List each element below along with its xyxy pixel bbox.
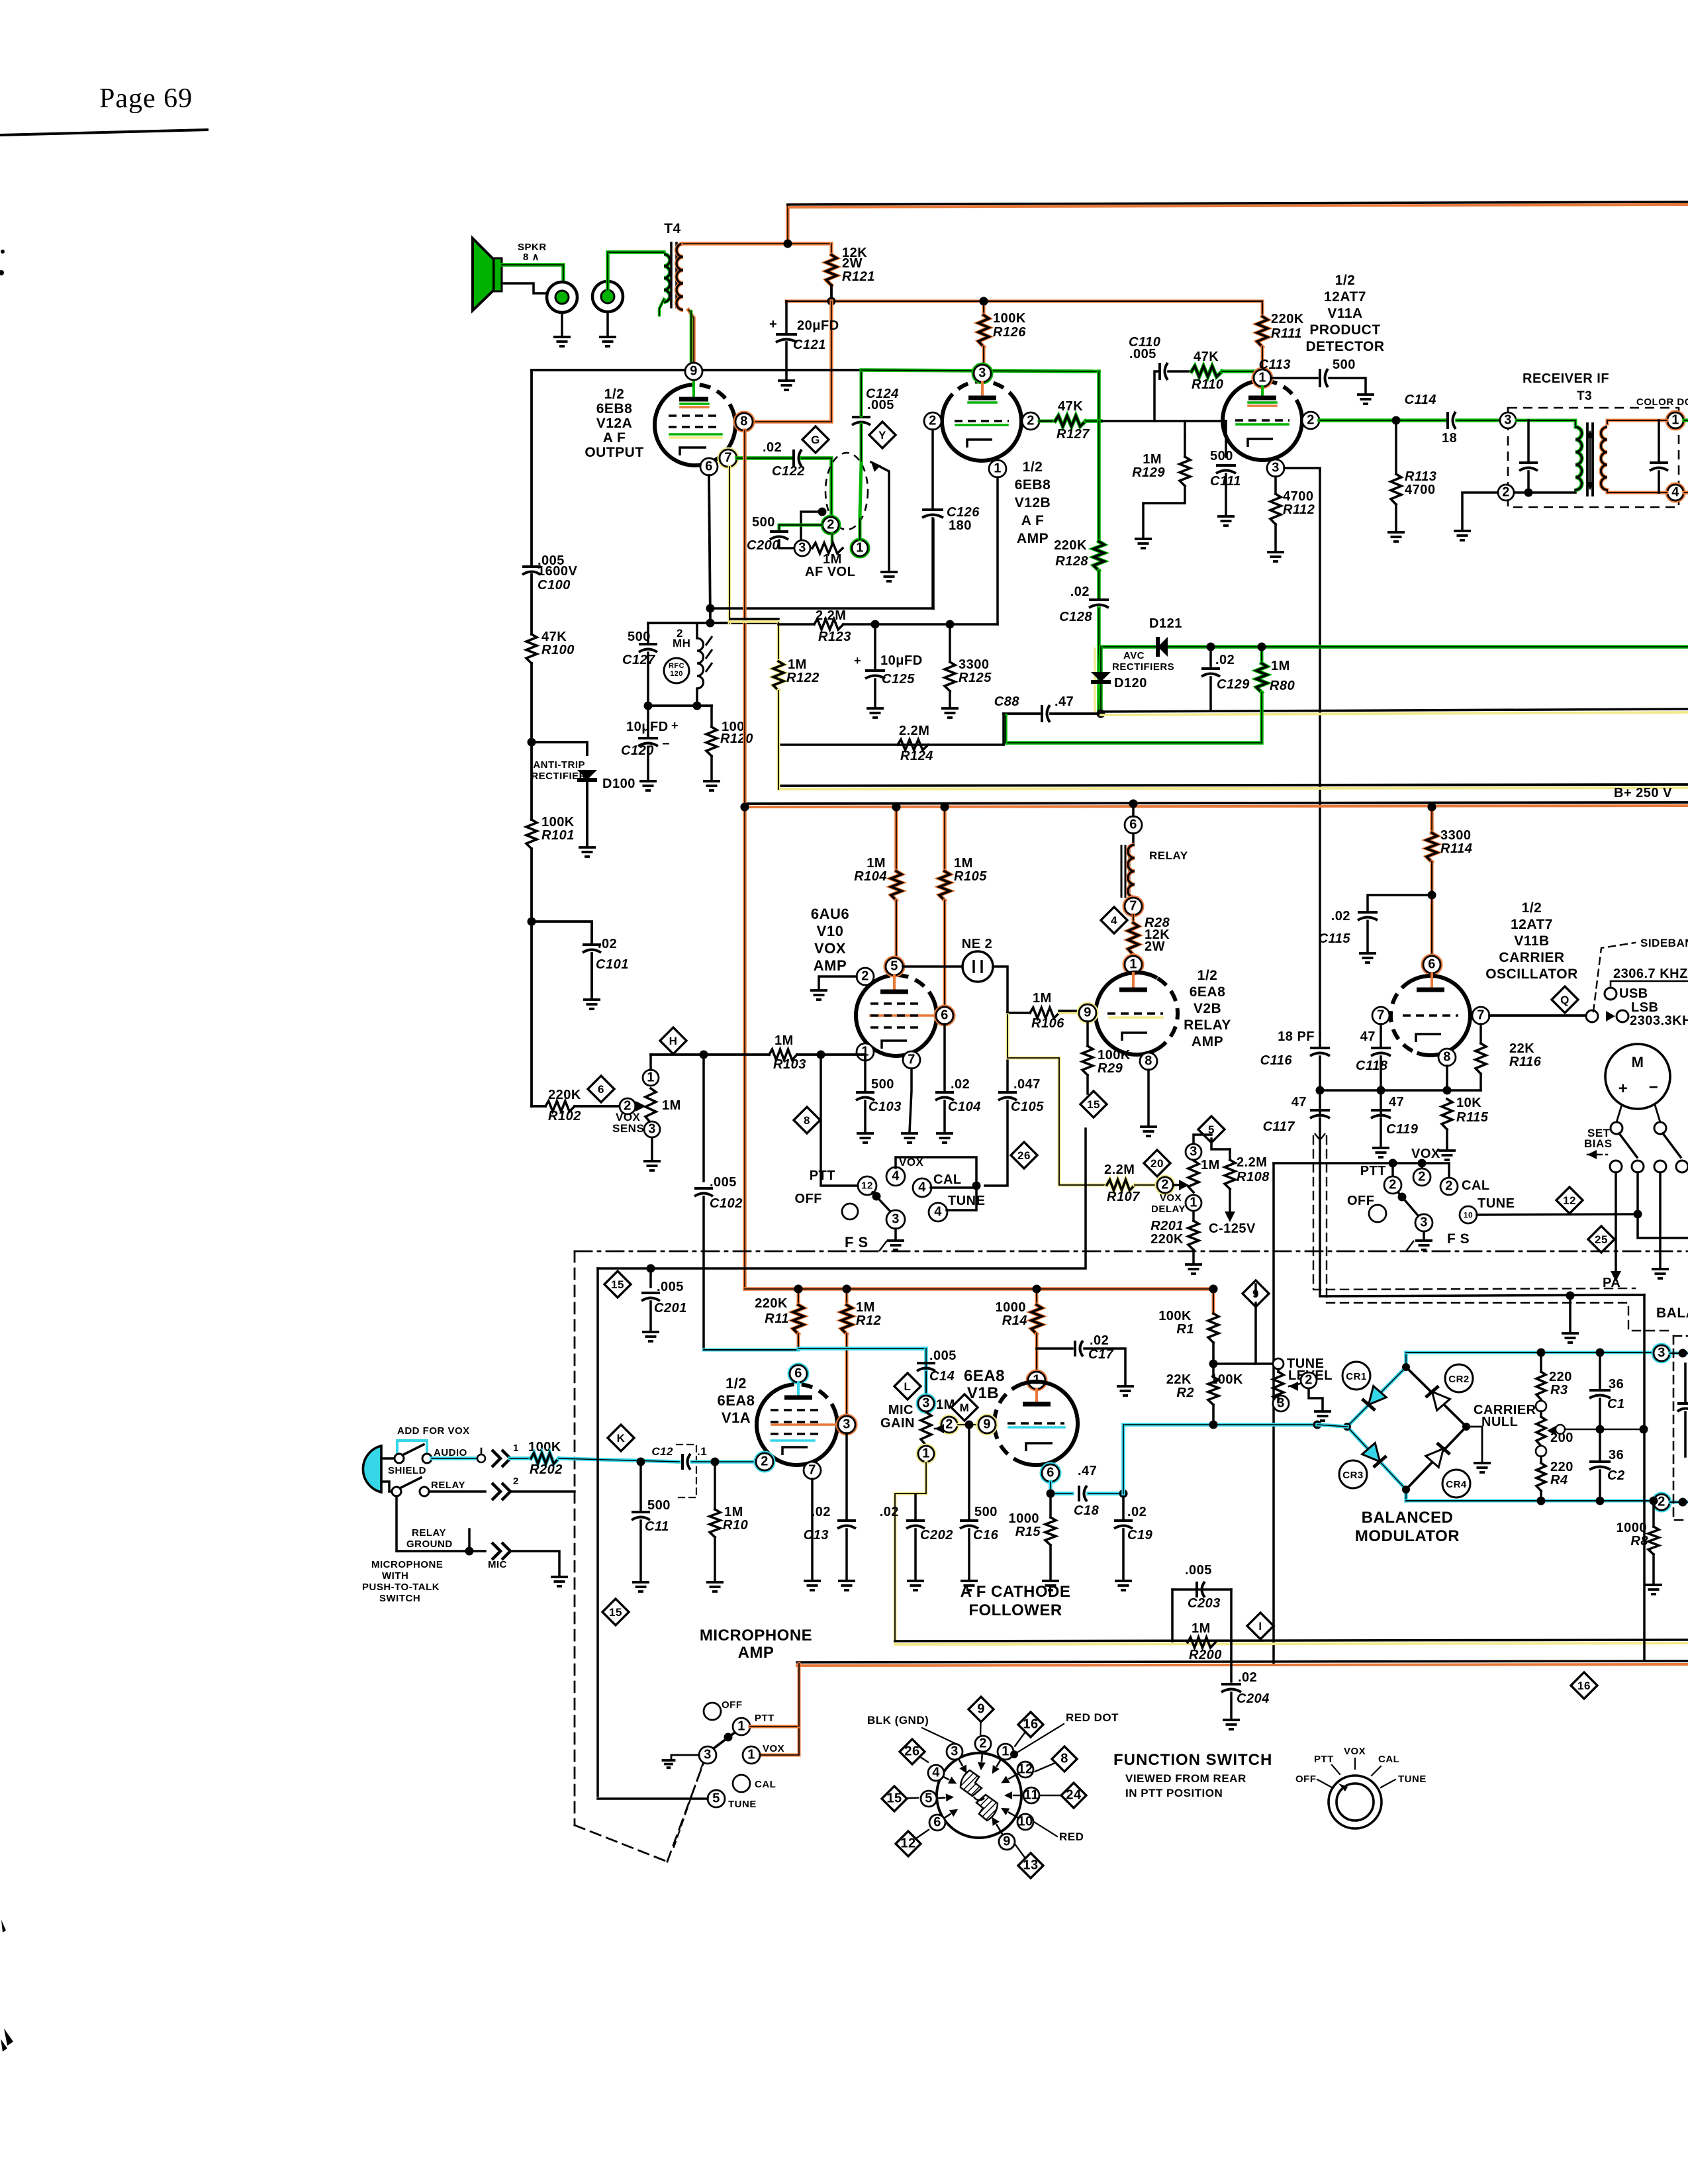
svg-text:22K: 22K (1166, 1372, 1192, 1387)
svg-text:PRODUCT: PRODUCT (1309, 322, 1380, 338)
svg-text:NULL: NULL (1481, 1415, 1518, 1429)
ground below R112 (1274, 524, 1277, 551)
svg-text:.02: .02 (1238, 1670, 1257, 1685)
T3 core (1586, 424, 1589, 495)
svg-text:2.2M: 2.2M (1104, 1163, 1135, 1177)
svg-text:1000: 1000 (1617, 1521, 1648, 1535)
mic audio switch contacts (381, 1457, 395, 1460)
junction row C116/C118 (1319, 1091, 1321, 1092)
svg-text:Y: Y (878, 429, 886, 442)
svg-text:2.2M: 2.2M (899, 724, 929, 738)
svg-text:C113: C113 (1259, 357, 1291, 372)
capacitor C88 .47 (1004, 712, 1039, 715)
svg-text:R128: R128 (1055, 554, 1088, 569)
wire V11A pin3 branch to long vertical (1284, 468, 1320, 471)
capacitor C105 .047 (1006, 1013, 1009, 1091)
svg-text:COLOR DOT: COLOR DOT (1636, 397, 1688, 408)
svg-text:100K: 100K (1098, 1048, 1131, 1063)
resistor R114 3300 (1428, 803, 1436, 812)
svg-text:V12A: V12A (596, 416, 633, 431)
svg-text:R112: R112 (1283, 502, 1315, 517)
resistor R116 22K (1479, 1024, 1482, 1043)
svg-text:5: 5 (890, 959, 898, 973)
svg-text:2: 2 (1445, 1178, 1453, 1193)
svg-text:2.2M: 2.2M (1237, 1155, 1267, 1170)
svg-text:C19: C19 (1127, 1528, 1153, 1543)
FS wiring to junction (896, 1157, 976, 1210)
svg-text:V11A: V11A (1327, 306, 1362, 321)
svg-text:R123: R123 (818, 630, 851, 644)
svg-text:RELAY: RELAY (412, 1527, 446, 1539)
V10 pin 6 (grid) (936, 1007, 953, 1024)
tube V10 6AU6 VOX AMP (856, 976, 937, 1056)
svg-text:8: 8 (804, 1114, 810, 1127)
svg-text:3300: 3300 (1440, 828, 1472, 843)
svg-text:C121: C121 (793, 338, 826, 352)
wire wiper row to V1B pin 9 (958, 1423, 978, 1427)
svg-text:C204: C204 (1237, 1691, 1270, 1706)
node 6 diamond (588, 1076, 614, 1102)
V10 pin 7 (903, 1051, 920, 1068)
V1A pin 7 (804, 1462, 821, 1479)
svg-text:8: 8 (1145, 1053, 1152, 1068)
svg-text:C114: C114 (1405, 393, 1436, 407)
wire T4 secondary bottom stub (659, 299, 664, 315)
USB contact + label (1605, 988, 1617, 1000)
svg-text:.005: .005 (867, 398, 894, 412)
pot wiper line to C1/C2 junction (1565, 1429, 1600, 1431)
svg-text:1M: 1M (724, 1505, 743, 1519)
V12B grid (955, 420, 1009, 422)
svg-text:VIEWED FROM REAR: VIEWED FROM REAR (1125, 1772, 1246, 1785)
V12A pin 8 (plate) (735, 413, 753, 430)
svg-text:C127: C127 (622, 653, 655, 667)
svg-text:22K: 22K (1509, 1041, 1534, 1056)
V2B pin 7 (1125, 898, 1142, 915)
meter M (1605, 1044, 1670, 1109)
svg-text:ANTI-TRIP: ANTI-TRIP (533, 759, 585, 771)
T3 pin 2 (1498, 485, 1514, 500)
svg-text:CR3: CR3 (1342, 1470, 1364, 1481)
svg-text:15: 15 (611, 1278, 624, 1291)
svg-text:.1: .1 (697, 1445, 707, 1458)
svg-text:6: 6 (598, 1083, 604, 1096)
svg-text:1/2: 1/2 (1522, 900, 1542, 916)
V2B pin 1 (plate) (1125, 956, 1142, 973)
resistor R107 2.2M (yellow) (1107, 1180, 1135, 1190)
svg-text:.02: .02 (1331, 909, 1350, 924)
svg-text:CAL: CAL (1462, 1178, 1490, 1193)
svg-text:R126: R126 (993, 325, 1026, 340)
svg-text:47: 47 (1360, 1029, 1376, 1044)
svg-text:2: 2 (1418, 1169, 1426, 1184)
ground below R129 (1143, 486, 1185, 538)
resistor R124 2.2M (898, 739, 928, 750)
svg-text:3: 3 (1504, 412, 1512, 427)
svg-text:2: 2 (861, 969, 869, 983)
svg-text:C125: C125 (882, 672, 915, 687)
yellow bottom rail (895, 1640, 1688, 1641)
T3 tuning capacitor left (1527, 420, 1530, 461)
svg-text:12: 12 (1017, 1762, 1033, 1776)
V10 pin 5 (plate) (886, 958, 903, 975)
svg-text:ADD FOR VOX: ADD FOR VOX (397, 1425, 470, 1437)
svg-text:BLK (GND): BLK (GND) (867, 1714, 929, 1727)
svg-text:R202: R202 (530, 1462, 563, 1477)
dashed arm from contact 3 (674, 1763, 703, 1847)
svg-text:6EB8: 6EB8 (1015, 477, 1051, 493)
svg-text:500: 500 (974, 1505, 998, 1519)
TUNE contact 10 (1460, 1206, 1477, 1223)
svg-text:1: 1 (1258, 370, 1266, 385)
wire VOX delay pot top to R108 (1194, 1135, 1211, 1143)
green return rectangle bottom (1006, 692, 1262, 743)
long vertical from PTT row down to bottom rail (1272, 1163, 1275, 1665)
svg-text:CR4: CR4 (1446, 1479, 1467, 1490)
svg-text:Page 69: Page 69 (99, 83, 193, 114)
V1A pin 6 (plate) (790, 1365, 807, 1382)
dashed leader to SIDEBAND label (1593, 943, 1635, 1012)
svg-text:RED DOT: RED DOT (1066, 1711, 1119, 1724)
svg-text:R80: R80 (1270, 679, 1295, 693)
svg-text:220K: 220K (755, 1296, 788, 1311)
T3 tuning capacitor right (1658, 420, 1660, 461)
svg-text:R114: R114 (1440, 841, 1472, 856)
svg-text:PTT: PTT (810, 1168, 835, 1183)
svg-text:2: 2 (1389, 1177, 1397, 1192)
capacitor C13 .02 (845, 1433, 848, 1519)
svg-text:1: 1 (1002, 1744, 1009, 1758)
svg-text:C104: C104 (948, 1100, 981, 1114)
svg-text:R129: R129 (1132, 465, 1165, 480)
wire junction up to top rail (786, 206, 790, 244)
yellow VOX delay feed (1008, 1015, 1107, 1185)
microphone symbol (363, 1446, 381, 1492)
dashed shield around C12 (677, 1445, 696, 1497)
node 9 diamond (1243, 1280, 1269, 1307)
cyan stubs to filter box (1670, 1352, 1688, 1355)
wire V12A pin 7 to C122 (green) (737, 456, 792, 460)
svg-text:OFF: OFF (795, 1192, 823, 1206)
svg-text:VOX: VOX (814, 940, 846, 957)
long vertical carrier feed down through modulator (1643, 1295, 1646, 1661)
svg-text:D100: D100 (602, 777, 635, 791)
wire orange drop from screen node to V12A plate pin 8 (753, 301, 831, 422)
V11B pin 7 right (1472, 1007, 1489, 1024)
V12A pin 6 (700, 458, 718, 475)
FS solid box outline (598, 1129, 1086, 1268)
svg-text:RECTIFIERS: RECTIFIERS (1112, 661, 1174, 673)
resistor R80 1M (1260, 647, 1264, 663)
V11A pin 3 (1267, 459, 1284, 477)
svg-text:220K: 220K (548, 1088, 581, 1102)
svg-text:6: 6 (1129, 817, 1137, 831)
tube V12A 1/2 6EB8 AF OUTPUT (655, 385, 735, 465)
svg-text:180: 180 (949, 518, 972, 533)
svg-text:C105: C105 (1011, 1100, 1044, 1114)
svg-text:OSCILLATOR: OSCILLATOR (1485, 967, 1578, 982)
svg-text:500: 500 (647, 1498, 671, 1513)
resistor R201 220K (1192, 1211, 1195, 1221)
svg-text:36: 36 (1609, 1377, 1624, 1392)
resistor R104 1M (892, 803, 901, 812)
svg-text:C201: C201 (654, 1301, 687, 1315)
svg-text:PTT: PTT (755, 1713, 774, 1724)
svg-text:RELAY: RELAY (431, 1480, 465, 1491)
svg-text:.47: .47 (1055, 694, 1074, 709)
svg-text:.005: .005 (1185, 1563, 1212, 1578)
resistor R11 220K (797, 1289, 800, 1305)
svg-text:500: 500 (871, 1077, 894, 1092)
header underline rule (0, 130, 207, 135)
resistor R3 220 (1537, 1349, 1546, 1357)
capacitor C2 36 (1599, 1429, 1601, 1460)
svg-text:1: 1 (1190, 1195, 1197, 1210)
V10 plate bar (893, 975, 896, 990)
svg-text:1M: 1M (1192, 1621, 1211, 1636)
svg-text:2: 2 (1161, 1177, 1169, 1192)
svg-text:2: 2 (929, 413, 937, 428)
wire PTT row to left vertical (1274, 1162, 1449, 1164)
FS switch contact 3 + ground (886, 1210, 905, 1229)
V12B pin 2 right (1022, 412, 1039, 430)
svg-text:.005: .005 (657, 1280, 684, 1294)
svg-text:8 ∧: 8 ∧ (523, 252, 539, 263)
svg-text:TUNE: TUNE (1477, 1196, 1515, 1211)
svg-text:500: 500 (752, 515, 775, 530)
svg-text:CAL: CAL (755, 1779, 776, 1790)
T3 internal bottom wire (1515, 490, 1575, 493)
svg-text:47K: 47K (1194, 350, 1219, 364)
V12A plate (692, 380, 695, 397)
wire V10 pin5 to NE2 to junction (903, 965, 962, 968)
svg-text:1M: 1M (856, 1300, 875, 1315)
svg-text:4: 4 (1671, 485, 1679, 499)
green AVC wire corner to the right edge (1099, 647, 1688, 714)
speaker SPKR 8-ohm (473, 238, 494, 310)
svg-text:2: 2 (1307, 412, 1315, 427)
svg-text:.02: .02 (763, 440, 782, 455)
tube V1B 6EA8 (1022, 1382, 1078, 1465)
ground for contact 3 (671, 1755, 699, 1759)
ground below VOX SENS pin 3 (651, 1138, 653, 1160)
vox jumper box (cyan) (397, 1441, 427, 1454)
node Y diamond (869, 422, 896, 448)
capacitor C104 .02 (V10 pin6) (943, 1024, 946, 1091)
wire cathode return row y=919 (710, 607, 933, 610)
svg-text:C12: C12 (651, 1445, 673, 1458)
svg-text:NE 2: NE 2 (962, 937, 992, 951)
V12A pin 9 redraw above box line (685, 363, 702, 380)
capacitor C19 .02 (1122, 1494, 1125, 1519)
balanced modulator bridge outline (1347, 1367, 1406, 1427)
svg-text:.02: .02 (1070, 585, 1090, 599)
svg-text:12AT7: 12AT7 (1324, 289, 1366, 305)
svg-text:2.2M: 2.2M (816, 608, 846, 623)
diode CR1 (upper left, cyan) (1362, 1386, 1387, 1411)
sideband filter dashed box at edge (1673, 1335, 1688, 1337)
svg-text:18: 18 (1442, 431, 1457, 446)
svg-text:VOX: VOX (1160, 1192, 1182, 1204)
svg-text:R113: R113 (1405, 469, 1436, 484)
svg-text:3: 3 (978, 365, 986, 380)
node anti-trip branch (528, 738, 536, 747)
svg-text:2: 2 (513, 1476, 519, 1487)
svg-text:4: 4 (918, 1180, 926, 1194)
svg-text:R4: R4 (1550, 1473, 1568, 1488)
svg-text:1/2: 1/2 (604, 387, 625, 402)
resistor R125 3300 (949, 624, 951, 662)
svg-text:2: 2 (1027, 413, 1035, 428)
svg-text:1M: 1M (867, 856, 886, 871)
node L diamond (894, 1373, 921, 1400)
svg-text:PUSH-TO-TALK: PUSH-TO-TALK (362, 1582, 440, 1593)
T3 primary winding (green) (1575, 427, 1582, 490)
svg-text:VOX: VOX (763, 1743, 784, 1754)
yellow wire MIC GAIN pin1 to bottom rail (895, 1462, 926, 1641)
svg-text:220: 220 (1549, 1370, 1572, 1384)
svg-text:6: 6 (1428, 957, 1436, 971)
mic relay switch (381, 1482, 393, 1492)
svg-text:G: G (811, 434, 820, 446)
svg-text:R29: R29 (1098, 1061, 1123, 1076)
node 12 diamond (1556, 1187, 1583, 1213)
resistor R10 1M (714, 1462, 716, 1509)
svg-text:OFF: OFF (722, 1699, 743, 1711)
svg-text:.47: .47 (1078, 1464, 1097, 1478)
wire screen supply line to R111 (right) (786, 301, 1262, 316)
top B+ rail (black over orange) to right edge (788, 202, 1688, 205)
svg-text:C14: C14 (929, 1369, 955, 1384)
svg-text:11: 11 (1024, 1787, 1039, 1802)
svg-text:R200: R200 (1189, 1648, 1222, 1662)
svg-text:24: 24 (1066, 1787, 1082, 1802)
svg-text:DETECTOR: DETECTOR (1305, 339, 1384, 354)
capacitor C111 500 (1225, 421, 1227, 457)
svg-text:7: 7 (1477, 1008, 1485, 1022)
svg-text:C102: C102 (710, 1196, 743, 1211)
svg-text:VOX: VOX (1411, 1147, 1440, 1161)
V10 cathode (882, 1041, 907, 1049)
svg-text:DELAY: DELAY (1151, 1204, 1186, 1215)
svg-text:OUTPUT: OUTPUT (585, 445, 643, 460)
orange B+ branch down-left to mic amp (743, 430, 747, 1289)
svg-text:R106: R106 (1031, 1016, 1064, 1031)
orange stub to R1 (1212, 1289, 1215, 1313)
ground below C101 (590, 953, 593, 998)
svg-text:C11: C11 (645, 1519, 669, 1534)
node 20 diamond (1144, 1150, 1170, 1176)
T3 internal top wire (1517, 420, 1575, 427)
svg-text:R107: R107 (1107, 1190, 1140, 1204)
FS switch arm (872, 1192, 891, 1212)
svg-text:3: 3 (704, 1747, 712, 1762)
svg-text:AF VOL: AF VOL (805, 565, 855, 579)
V11A cathode (1248, 439, 1273, 447)
svg-text:C203: C203 (1188, 1596, 1221, 1611)
svg-text:T3: T3 (1577, 389, 1592, 403)
TUNE LEVEL potentiometer 100K (1213, 1362, 1273, 1365)
resistor R127 47K (grid stopper) (1039, 420, 1055, 423)
svg-text:6: 6 (794, 1366, 802, 1380)
svg-text:R102: R102 (548, 1109, 581, 1123)
bottom PTT contact 1 (733, 1718, 750, 1735)
wire R127 to C110 junction (green) (1086, 419, 1101, 423)
svg-text:12: 12 (861, 1180, 873, 1192)
relay ground vertical (397, 1496, 469, 1551)
svg-text:12AT7: 12AT7 (1511, 917, 1553, 932)
meter switch contacts row (1610, 1161, 1622, 1172)
V12B pin 3 (plate) (974, 365, 991, 382)
wire V10 pin7 to ground (910, 1068, 912, 1132)
svg-text:10K: 10K (1456, 1096, 1481, 1110)
svg-text:T4: T4 (664, 221, 681, 236)
socket wire-code diamonds (980, 1709, 982, 1734)
wire T3 pin 1 to page edge (1684, 418, 1688, 422)
svg-text:R105: R105 (954, 869, 987, 884)
V1A pin 2 (grid) (756, 1453, 773, 1470)
svg-text:V2B: V2B (1194, 1001, 1221, 1016)
svg-text:1/2: 1/2 (1023, 459, 1043, 475)
svg-text:4: 4 (892, 1168, 900, 1183)
ground below C120 (647, 747, 649, 780)
svg-text:1: 1 (1671, 412, 1679, 427)
svg-text:R100: R100 (541, 643, 575, 657)
svg-text:26: 26 (904, 1744, 919, 1758)
V1B pin 6 (cathode) (1042, 1464, 1059, 1482)
svg-text:R125: R125 (959, 671, 992, 685)
svg-text:1M: 1M (1201, 1158, 1220, 1172)
tube V11A 1/2 12AT7 PRODUCT DETECTOR (1223, 382, 1302, 460)
tube V11B 1/2 12AT7 CARRIER OSCILLATOR (1411, 976, 1470, 1055)
wire T4 primary continues right to R121 (788, 242, 831, 246)
svg-text:PTT: PTT (1360, 1164, 1386, 1178)
svg-text:RECEIVER IF: RECEIVER IF (1523, 371, 1609, 386)
svg-text:3: 3 (1190, 1144, 1197, 1159)
svg-text:MICROPHONE: MICROPHONE (371, 1559, 443, 1570)
svg-text:2: 2 (979, 1736, 987, 1750)
svg-text:1M: 1M (1143, 452, 1162, 467)
bridge top wire to carrier input (1406, 1351, 1653, 1354)
V1B pin 9 (grid) (978, 1416, 996, 1433)
svg-text:3: 3 (1420, 1215, 1428, 1229)
MIC GAIN wiper to V1B pin 9 (941, 1417, 957, 1433)
svg-text:CR1: CR1 (1346, 1371, 1367, 1382)
resistor R113 4700 (1395, 420, 1397, 474)
connector chevrons relay (492, 1483, 510, 1500)
node R125 branch (946, 620, 955, 629)
ground at jack J2 (606, 312, 609, 337)
ground below C111 (1225, 474, 1227, 515)
diode CR4 (lower right) (1426, 1443, 1450, 1468)
svg-text:AMP: AMP (1192, 1034, 1223, 1049)
svg-text:220K: 220K (1054, 538, 1087, 553)
resistor R121 12K 2W (830, 244, 833, 255)
svg-text:1: 1 (1129, 957, 1137, 971)
VOX DELAY potentiometer 1M (1157, 1177, 1173, 1193)
mic audio line (cyan) to connector (432, 1456, 478, 1460)
wire V12A pin 6 cathode drop (709, 475, 710, 623)
svg-text:IN PTT POSITION: IN PTT POSITION (1125, 1787, 1223, 1799)
svg-text:C2: C2 (1607, 1468, 1625, 1483)
tube V2B 1/2 6EA8 RELAY AMP (1096, 973, 1157, 1055)
svg-text:47: 47 (1389, 1095, 1404, 1110)
V10 pin 2 + ground (857, 968, 874, 985)
svg-text:1/2: 1/2 (726, 1375, 747, 1392)
svg-text:220K: 220K (1150, 1232, 1184, 1247)
svg-text:C129: C129 (1217, 677, 1250, 692)
svg-text:7: 7 (908, 1052, 915, 1067)
